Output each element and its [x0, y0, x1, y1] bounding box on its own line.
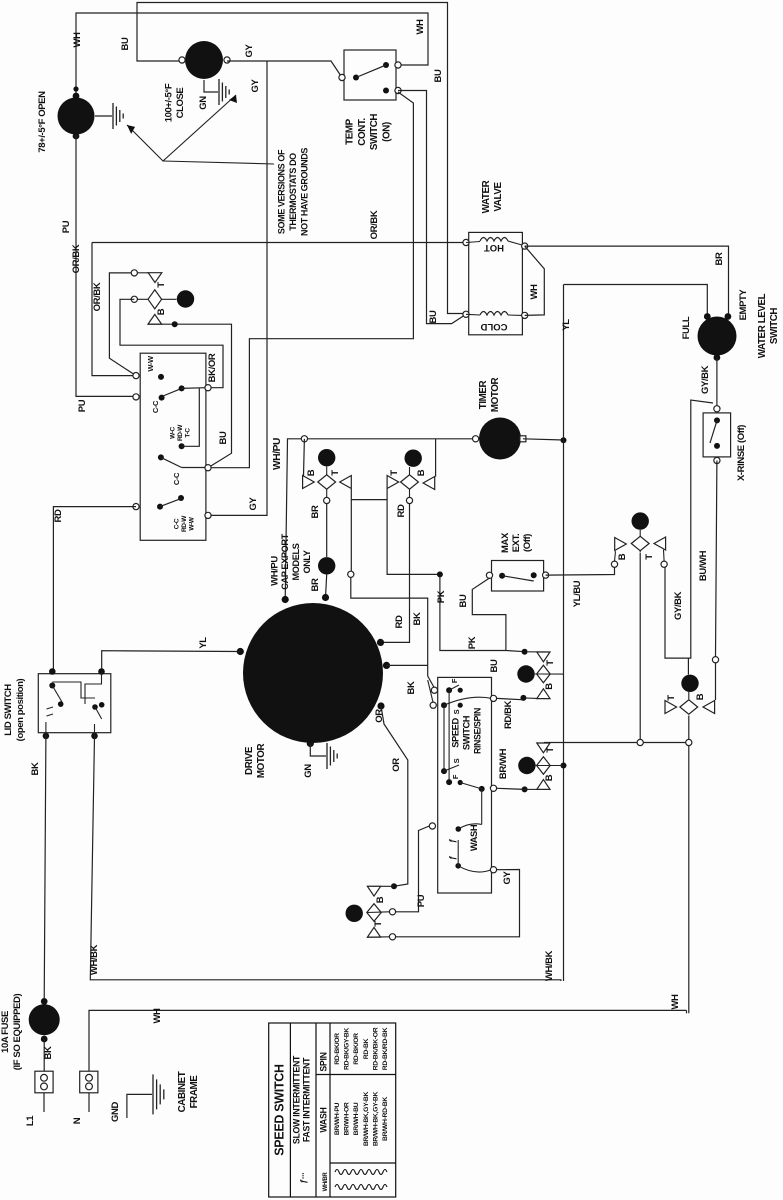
svg-text:T: T — [389, 470, 400, 476]
timer motor — [479, 418, 521, 460]
speed switch table grid — [269, 1023, 396, 1197]
junction dot WH — [73, 86, 78, 91]
svg-text:WH: WH — [415, 19, 426, 35]
svg-text:NOT HAVE GROUNDS: NOT HAVE GROUNDS — [299, 148, 309, 236]
svg-text:BU: BU — [458, 594, 469, 607]
svg-text:WH/PU: WH/PU — [270, 556, 281, 586]
svg-text:BR: BR — [310, 578, 321, 591]
wire cluster1 diamond down — [639, 553, 641, 740]
svg-text:T: T — [666, 695, 677, 701]
svg-text:B: B — [617, 553, 628, 560]
connector cluster B - RD — [435, 439, 437, 477]
svg-text:WASH: WASH — [319, 1107, 329, 1132]
svg-text:MAX: MAX — [500, 532, 511, 553]
wire horizontal link clusters bottom — [544, 742, 637, 744]
svg-text:WH: WH — [529, 284, 540, 300]
svg-text:BR/WH-PU: BR/WH-PU — [334, 1102, 341, 1135]
svg-text:N: N — [72, 1117, 83, 1124]
terminal L1 — [35, 1071, 53, 1093]
wire WH neutral bus — [89, 1010, 687, 1071]
svg-text:RD-BK/RD-BK: RD-BK/RD-BK — [382, 1027, 389, 1070]
svg-text:SWITCH: SWITCH — [769, 308, 780, 345]
svg-text:L1: L1 — [25, 1115, 36, 1126]
svg-text:WH: WH — [152, 1008, 163, 1024]
wire BU temp switch to cold valve — [398, 91, 466, 324]
GY out contact row — [178, 495, 184, 501]
svg-text:OR: OR — [374, 709, 385, 723]
wire cross link clusters — [387, 489, 440, 574]
connector cluster 1 - YL/BU — [611, 561, 617, 567]
svg-text:X-RINSE (Off): X-RINSE (Off) — [736, 425, 747, 481]
svg-text:T: T — [156, 282, 167, 288]
svg-text:OR/BK: OR/BK — [71, 244, 82, 273]
ground GND cabinet frame — [127, 1094, 152, 1118]
wire BR cluster to motor — [326, 504, 328, 557]
svg-text:B: B — [375, 896, 386, 903]
svg-text:RINSE/SPIN: RINSE/SPIN — [473, 708, 483, 754]
svg-text:B: B — [544, 683, 555, 690]
wire WH/BK lid switch to bus — [90, 736, 561, 981]
wire BK motor to speed switch — [387, 664, 428, 666]
svg-text:RD: RD — [53, 509, 64, 522]
svg-text:(IF SO EQUIPPED): (IF SO EQUIPPED) — [12, 994, 23, 1071]
svg-text:BR: BR — [714, 252, 725, 265]
svg-text:CAP EXPORT: CAP EXPORT — [280, 533, 290, 589]
svg-text:BU: BU — [218, 431, 229, 444]
COLD coil — [463, 311, 469, 317]
note arrows: some versions of thermostats — [127, 95, 236, 161]
wire OR/BK main horizontal to HOT valve — [92, 242, 466, 244]
svg-text:C-C: C-C — [174, 518, 181, 529]
wire PK max-ext junction — [440, 574, 525, 651]
svg-text:TIMER: TIMER — [478, 380, 489, 409]
svg-text:CABINET: CABINET — [177, 1071, 188, 1112]
x-rinse switch box — [714, 406, 720, 412]
wire BU max-ext to cluster — [472, 578, 506, 651]
svg-text:WH/BK: WH/BK — [544, 950, 555, 981]
svg-text:(ON): (ON) — [381, 122, 392, 142]
wire BU temp switch lower branch — [208, 92, 413, 468]
svg-text:PU: PU — [77, 399, 88, 412]
svg-text:GY: GY — [502, 870, 513, 884]
svg-text:BU: BU — [489, 659, 500, 672]
svg-text:RD-W: RD-W — [177, 424, 184, 441]
svg-text:PU: PU — [61, 220, 72, 233]
svg-text:MOTOR: MOTOR — [490, 378, 501, 413]
svg-text:B: B — [306, 469, 317, 476]
contact C-C row (PU in) — [133, 394, 139, 400]
svg-text:BK/OR: BK/OR — [207, 353, 218, 382]
BK/OR out contact — [182, 387, 206, 390]
svg-text:FRAME: FRAME — [189, 1075, 200, 1109]
svg-text:BR/WH-BK,GY-BK: BR/WH-BK,GY-BK — [372, 1091, 379, 1146]
svg-text:RD/BK: RD/BK — [503, 700, 514, 729]
lid switch internals — [49, 683, 55, 689]
W-C RD-W contacts — [179, 443, 185, 449]
wire WH cluster2 to bottom bus — [688, 716, 690, 740]
svg-text:SPEED SWITCH: SPEED SWITCH — [273, 1064, 287, 1156]
svg-text:DRIVE: DRIVE — [244, 746, 255, 775]
svg-text:GY: GY — [248, 496, 259, 510]
wire WH valve common — [525, 246, 545, 315]
wire BU triangle to selector — [148, 324, 232, 468]
svg-text:(open position): (open position) — [15, 678, 26, 741]
svg-text:BU: BU — [120, 37, 131, 50]
svg-text:PU: PU — [416, 894, 427, 907]
connector stack RD/BK — [522, 649, 528, 655]
ground GN at thermostat2 — [204, 80, 218, 92]
svg-text:RD-BK/BK-OR: RD-BK/BK-OR — [372, 1027, 379, 1070]
svg-text:T: T — [373, 921, 384, 927]
svg-text:RD: RD — [396, 504, 407, 517]
svg-text:MODELS: MODELS — [291, 543, 301, 580]
svg-text:GY: GY — [250, 78, 261, 92]
svg-text:RD-BK: RD-BK — [363, 1038, 370, 1059]
svg-text:EMPTY: EMPTY — [738, 289, 749, 321]
svg-text:C-C: C-C — [172, 472, 181, 485]
svg-text:OR/BK: OR/BK — [92, 282, 103, 311]
wire RD/BK speed switch to connector — [497, 698, 525, 699]
svg-text:EXT.: EXT. — [511, 534, 522, 552]
selector switch box (water temp) — [140, 353, 206, 540]
svg-text:10A FUSE: 10A FUSE — [0, 1011, 11, 1053]
svg-text:W-C: W-C — [170, 426, 177, 438]
wash contacts — [429, 823, 435, 829]
svg-text:TEMP: TEMP — [345, 118, 356, 144]
connector stack BR/WH — [537, 742, 550, 744]
svg-text:FULL: FULL — [681, 316, 692, 339]
HOT coil — [463, 239, 469, 245]
wire GY connector to wash switch — [396, 870, 520, 937]
wire GY drop to selector box — [208, 61, 267, 515]
wire to B diamond — [120, 299, 223, 387]
wire BR hot valve to water level switch — [525, 246, 729, 316]
svg-text:B: B — [544, 774, 555, 781]
max ext switch box — [492, 561, 544, 592]
svg-text:OR/BK: OR/BK — [369, 210, 380, 239]
lid switch box — [38, 674, 111, 733]
svg-text:ƒ⋅⋅⋅: ƒ⋅⋅⋅ — [299, 1173, 308, 1184]
svg-text:RD: RD — [394, 615, 405, 628]
wire OR/BK from T-connector to selector row1 — [109, 273, 135, 376]
svg-text:WH/BK: WH/BK — [89, 944, 100, 975]
svg-text:B: B — [695, 693, 706, 700]
svg-text:BK: BK — [406, 681, 417, 694]
terminal N — [80, 1071, 98, 1093]
drive motor — [243, 603, 383, 743]
svg-text:YL/BU: YL/BU — [572, 580, 583, 607]
svg-text:78+/-5°F OPEN: 78+/-5°F OPEN — [37, 91, 48, 153]
temp control switch box — [344, 50, 396, 100]
svg-text:W-W: W-W — [189, 516, 196, 530]
svg-text:W-W: W-W — [146, 355, 155, 372]
svg-text:T: T — [644, 554, 655, 560]
fuse 10A — [41, 998, 48, 1005]
contact W-W row — [133, 373, 139, 379]
svg-text:GY: GY — [244, 43, 255, 57]
svg-text:S: S — [452, 709, 461, 714]
wire YL/BU max-ext to B connector — [546, 567, 615, 575]
svg-text:PK: PK — [467, 636, 478, 649]
svg-text:BR: BR — [310, 505, 321, 518]
svg-text:RD-BK/OR: RD-BK/OR — [334, 1033, 341, 1065]
svg-text:C-C: C-C — [151, 400, 160, 413]
speed switch contacts F S — [431, 687, 437, 693]
wire YL water level to main vertical — [564, 285, 708, 317]
svg-text:SPIN: SPIN — [319, 1052, 329, 1071]
wire GY thermostat2 to temp switch — [227, 61, 342, 78]
BK/OR right terminal — [205, 385, 211, 391]
BU out contact row — [158, 454, 164, 460]
svg-text:MOTOR: MOTOR — [256, 744, 267, 779]
svg-text:WATER: WATER — [481, 180, 492, 213]
svg-text:(Off): (Off) — [522, 534, 533, 552]
svg-text:RD-W: RD-W — [181, 515, 188, 532]
svg-text:SLOW INTERMITTENT: SLOW INTERMITTENT — [292, 1055, 302, 1144]
connector stack PU/GY - B T — [391, 883, 397, 889]
contacts S F lower — [441, 768, 447, 774]
svg-text:OR: OR — [391, 758, 402, 772]
thermostat 100F CLOSE — [185, 41, 223, 79]
svg-text:GY/BK: GY/BK — [700, 365, 711, 394]
svg-text:HOT: HOT — [484, 242, 504, 253]
wire BK lid switch to fuse — [44, 736, 46, 1001]
svg-text:T: T — [545, 660, 556, 666]
wire PU left vertical — [76, 135, 137, 396]
svg-text:BR/WH: BR/WH — [498, 748, 509, 779]
svg-text:FAST INTERMITTENT: FAST INTERMITTENT — [302, 1057, 312, 1142]
svg-text:T: T — [330, 470, 341, 476]
wire WH/PU timer feed — [285, 439, 475, 600]
wire BK fuse to L1 — [43, 1039, 45, 1071]
table script line 2 — [335, 1185, 387, 1190]
svg-text:SWITCH: SWITCH — [369, 114, 380, 151]
connector cluster A - BR — [303, 439, 306, 476]
svg-text:LID SWITCH: LID SWITCH — [3, 684, 14, 736]
svg-text:BK: BK — [30, 762, 41, 775]
svg-text:WASH: WASH — [469, 824, 479, 851]
svg-text:BU: BU — [428, 310, 439, 323]
svg-text:WH: WH — [72, 32, 83, 48]
wire GY/BK branch to B-T connector — [665, 400, 713, 658]
svg-text:WH: WH — [670, 994, 681, 1010]
thermostat 78F OPEN — [58, 98, 95, 135]
svg-text:ONLY: ONLY — [302, 550, 312, 573]
svg-text:PK: PK — [436, 590, 447, 603]
speed switch box — [438, 677, 492, 893]
svg-text:BR/WH-RD-BK: BR/WH-RD-BK — [382, 1097, 389, 1141]
wire BK cluster A to speed switch — [350, 489, 352, 571]
water level switch — [698, 317, 737, 356]
svg-text:100+/-5°F: 100+/-5°F — [163, 83, 174, 122]
ground GN drive motor — [310, 744, 326, 757]
table script line 1 — [335, 1170, 387, 1175]
wire RD selector to lid switch — [53, 507, 136, 670]
svg-text:CLOSE: CLOSE — [175, 88, 186, 119]
svg-text:T: T — [545, 747, 556, 753]
svg-text:BK: BK — [43, 1046, 54, 1059]
svg-text:COLD: COLD — [480, 321, 507, 332]
svg-text:B: B — [416, 469, 427, 476]
connector B diamond — [131, 296, 137, 302]
svg-text:SOME VERSIONS OF: SOME VERSIONS OF — [277, 149, 287, 234]
svg-text:YL: YL — [198, 637, 209, 649]
svg-text:YL: YL — [561, 319, 572, 331]
lower triangle connector — [148, 314, 162, 324]
svg-text:GND: GND — [110, 1102, 121, 1122]
main vertical YL/WHBK — [563, 285, 565, 982]
wire BU top: thermostat2 loop — [137, 3, 466, 314]
svg-text:RD-BK/OR: RD-BK/OR — [353, 1033, 360, 1065]
svg-text:THERMOSTATS DO: THERMOSTATS DO — [288, 153, 298, 231]
wire timer to main vertical — [523, 439, 564, 440]
svg-text:S: S — [452, 758, 461, 763]
wire BU/WH x-rinse down — [716, 461, 717, 657]
svg-text:CONT.: CONT. — [357, 118, 368, 146]
svg-text:BU/WH: BU/WH — [698, 550, 709, 581]
svg-text:WH/PU: WH/PU — [272, 438, 283, 470]
water valve box — [469, 232, 523, 334]
svg-text:GY/BK: GY/BK — [673, 591, 684, 620]
svg-text:WH/BR: WH/BR — [323, 1172, 329, 1192]
connector cluster 2 - WH — [687, 658, 689, 674]
wire PU connector to wash switch — [396, 826, 430, 912]
svg-text:BR/WH-OR: BR/WH-OR — [344, 1102, 351, 1135]
svg-text:RD-BK/GY-BK: RD-BK/GY-BK — [344, 1028, 351, 1070]
svg-text:SPEED: SPEED — [450, 718, 460, 748]
wire WH top: thermostat1 to temp switch — [76, 13, 428, 97]
svg-text:GN: GN — [303, 764, 314, 778]
connector T triangle — [131, 270, 137, 276]
wire BR/WH speed switch to connector — [497, 788, 525, 789]
ground at thermostat1 — [95, 115, 112, 117]
label cap export models only — [301, 436, 307, 442]
svg-text:BK: BK — [412, 612, 423, 625]
wire YL lid switch to motor — [102, 651, 241, 672]
wire GY/BK water level to x-rinse — [716, 358, 718, 410]
wire OR/BK down-left branch to selector row1 — [92, 243, 135, 376]
svg-text:GN: GN — [198, 96, 209, 110]
svg-text:BR/WH-BK,GY-BK: BR/WH-BK,GY-BK — [363, 1091, 370, 1146]
svg-text:BR/WH-BU: BR/WH-BU — [353, 1102, 360, 1135]
svg-text:B: B — [156, 308, 167, 315]
svg-text:SWITCH: SWITCH — [462, 715, 472, 750]
svg-text:T-C: T-C — [185, 428, 192, 438]
wire OR motor to connector — [381, 706, 408, 886]
svg-text:BU: BU — [433, 69, 444, 82]
svg-text:VALVE: VALVE — [493, 182, 504, 212]
svg-text:WATER LEVEL: WATER LEVEL — [757, 293, 768, 358]
wire RD cluster B to motor — [381, 504, 410, 643]
